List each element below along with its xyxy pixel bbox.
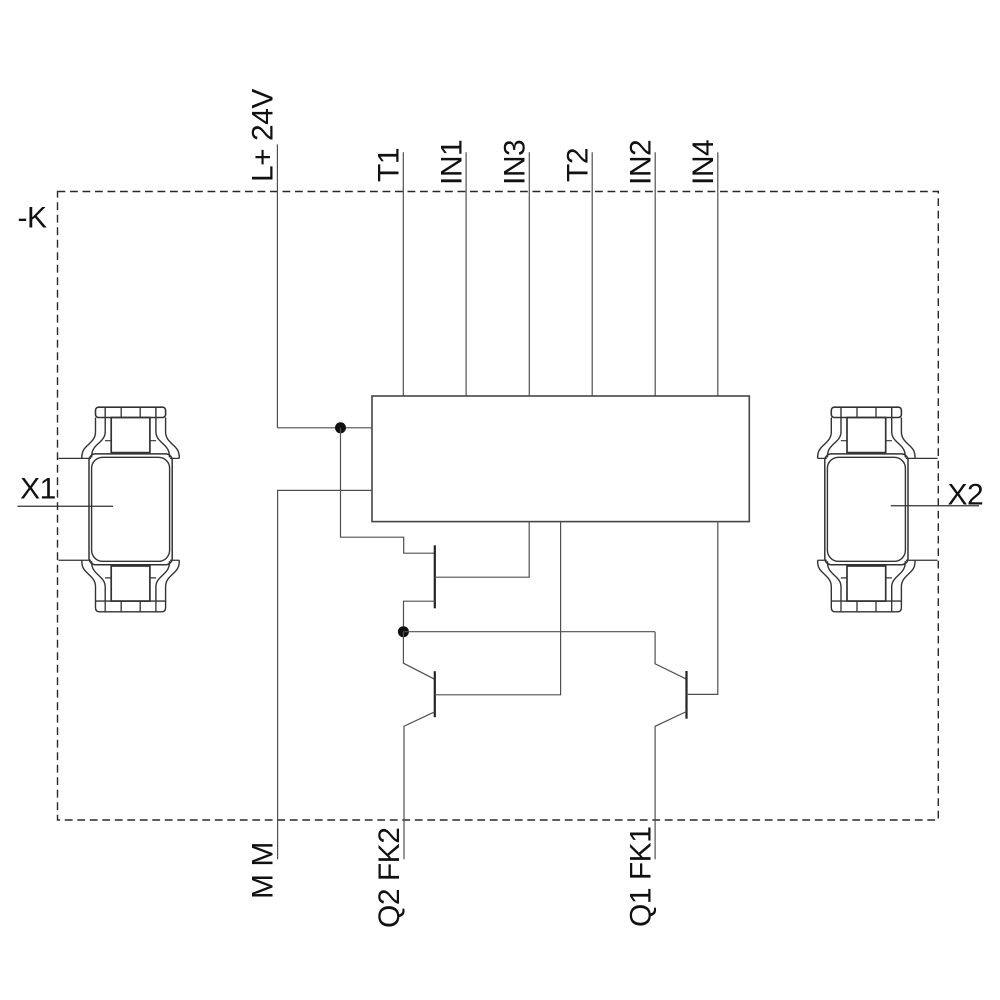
wire stub X2 top	[906, 457, 938, 459]
connector X1 bottom band top edge	[96, 600, 166, 602]
wire Q3 to U1 bottom pin	[435, 522, 529, 578]
enclosure dashed boundary -K	[58, 192, 939, 821]
connector X1 top side stubs	[105, 440, 156, 442]
transistor Q3 bar	[434, 545, 436, 608]
wire L+ vertical	[276, 144, 278, 427]
connector X1 top left wing inner	[92, 407, 106, 457]
connector X2 bottom right wing inner	[892, 561, 906, 601]
wire node A to Q1 collector rail	[403, 631, 655, 633]
junction node L+	[335, 422, 346, 433]
connector X1 top right wing inner	[156, 407, 170, 457]
wire T1	[402, 152, 404, 396]
connector X1 top right wing outer	[166, 418, 180, 459]
wire stub X2 bottom	[906, 559, 938, 561]
connector X2 bottom pin box	[847, 566, 886, 601]
connector X2 bottom left wing inner	[827, 561, 841, 601]
connector X2 bottom side stubs	[841, 577, 892, 579]
connector X1 top pin box	[111, 418, 150, 453]
transistor Q1 collector	[655, 632, 686, 680]
wire IN1	[465, 152, 467, 396]
connector X1 top nut bar	[96, 407, 166, 417]
connector X2 bottom outline	[818, 560, 916, 612]
wire stub X1 bottom	[59, 559, 92, 561]
connector X1 bottom pin box	[111, 566, 150, 601]
connector X1 bottom right wing inner	[156, 561, 170, 601]
connector X1 bottom band dividers	[105, 601, 156, 612]
connector X2 bottom band top edge	[831, 600, 901, 602]
connector X1 bottom side stubs	[105, 577, 156, 579]
connector X1 top left wing outer	[82, 418, 96, 459]
connector X1 barrel inner seal	[92, 457, 170, 561]
wire Q3 down to node A	[404, 601, 435, 632]
junction node A	[398, 626, 409, 637]
svg-text:-K: -K	[18, 202, 47, 235]
transistor Q2 emitter	[404, 712, 435, 859]
connector X1 barrel outer	[89, 454, 172, 565]
IC block U1	[372, 396, 749, 522]
connector X2 top left wing inner	[827, 407, 841, 457]
leader line X1	[18, 505, 114, 507]
transistor Q2 base wire to U1	[435, 522, 561, 695]
connector X2 top nut bar	[831, 407, 901, 417]
connector X2	[818, 407, 984, 612]
connector X2 top right wing inner	[892, 407, 906, 457]
wire M from U1 left	[278, 490, 372, 859]
svg-text:IN1: IN1	[435, 140, 468, 185]
transistor Q2 bar	[434, 671, 436, 717]
connector X2 barrel outer	[825, 454, 908, 565]
svg-text:X2: X2	[948, 479, 984, 512]
svg-text:X1: X1	[20, 472, 56, 505]
connector X1 top bar dividers	[121, 407, 140, 417]
connector X2 top side stubs	[841, 440, 892, 442]
wire IN2	[654, 152, 656, 396]
transistor Q1 bar	[685, 671, 687, 719]
connector X2 top pin box	[847, 418, 886, 453]
connector X1 bottom outline	[82, 560, 180, 612]
wire IN4	[717, 152, 719, 396]
svg-text:IN3: IN3	[499, 140, 532, 185]
connector X2 barrel inner seal	[827, 457, 905, 561]
leader line X2	[891, 505, 979, 507]
transistor Q2 collector	[403, 632, 434, 680]
connector X2 top bar dividers	[857, 407, 876, 417]
svg-text:IN2: IN2	[624, 140, 657, 185]
wire IN3	[528, 152, 530, 396]
svg-text:Q1 FK1: Q1 FK1	[625, 827, 658, 927]
connector X2 top right wing outer	[901, 418, 915, 459]
connector X1 bottom left wing inner	[92, 561, 106, 601]
wire L+ horizontal into U1	[277, 427, 372, 429]
wire from L+ node down to Q3 base network	[341, 428, 435, 553]
wire T2	[591, 152, 593, 396]
svg-text:T2: T2	[561, 148, 594, 182]
ear base lines X1 right	[170, 458, 179, 560]
transistor Q1 base wire to U1	[687, 522, 718, 695]
svg-text:T1: T1	[373, 148, 406, 182]
connector X2 top left wing outer	[818, 418, 832, 459]
svg-text:M M: M M	[246, 842, 279, 899]
svg-text:Q2 FK2: Q2 FK2	[373, 828, 406, 928]
svg-text:L+ 24V: L+ 24V	[247, 89, 280, 182]
ear base lines X2 left	[818, 458, 827, 560]
connector X2 bottom band dividers	[841, 601, 892, 612]
svg-text:IN4: IN4	[687, 140, 720, 185]
transistor Q1 emitter	[655, 712, 686, 860]
wire stub X1 top	[59, 457, 92, 459]
connector X1	[18, 407, 180, 612]
